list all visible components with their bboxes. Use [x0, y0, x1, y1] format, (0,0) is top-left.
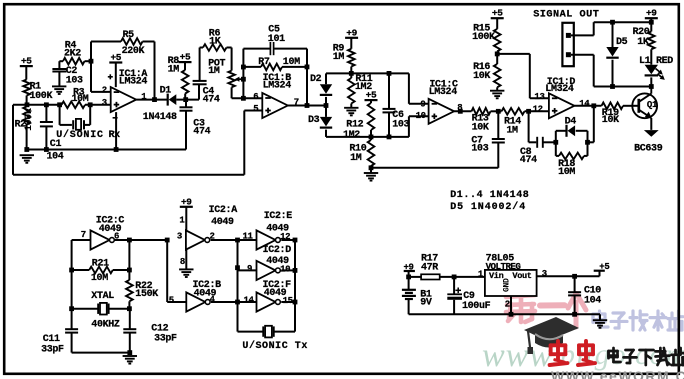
transistor Q1 BC639	[632, 93, 657, 118]
wire divider to IC1:D pin 13	[497, 53, 530, 55]
svg-text:SIGNAL OUT: SIGNAL OUT	[533, 10, 599, 21]
wire connector pin2 to collector rail	[571, 54, 594, 56]
junction IC2:F output	[293, 300, 298, 305]
junction IC2:B out / IC2:F in	[235, 300, 240, 305]
junction C10 bottom	[572, 312, 577, 317]
junction node R3 left / transducer	[57, 102, 62, 107]
svg-text:104: 104	[584, 296, 601, 307]
resistor R3	[62, 102, 86, 109]
svg-text:103: 103	[66, 75, 83, 86]
svg-text:100uF: 100uF	[462, 301, 491, 312]
LED L1 RED	[645, 65, 658, 75]
wire input row left segment	[13, 104, 62, 106]
junction C10 top	[572, 274, 577, 279]
svg-text:10M: 10M	[72, 94, 89, 105]
svg-text:LM324: LM324	[545, 84, 574, 95]
junction IC1:C output	[458, 109, 463, 114]
svg-text:LM324: LM324	[429, 87, 458, 98]
ground symbol below C2	[52, 85, 66, 87]
junction IC2:D output	[293, 268, 298, 273]
wire R17 to regulator input	[440, 276, 485, 278]
wire left vertical to return rail	[12, 105, 14, 175]
crystal XTAL 40KHZ	[72, 308, 99, 310]
inverter IC2:E	[238, 239, 257, 241]
svg-text:8: 8	[180, 257, 185, 267]
svg-text:1N4148: 1N4148	[143, 112, 177, 123]
svg-text:104: 104	[47, 151, 64, 162]
resistor R2	[23, 107, 30, 125]
junction D2/D3 midpoint	[324, 103, 329, 108]
svg-text:Q1: Q1	[647, 100, 658, 110]
wire R6 to POT	[231, 48, 233, 71]
junction +9 rail	[649, 20, 654, 25]
svg-text:U/SONIC: U/SONIC	[56, 129, 104, 141]
ultrasonic receiver transducer U/SONIC Rx	[59, 105, 61, 125]
junction node R3 right / transducer	[88, 102, 93, 107]
svg-text:150K: 150K	[135, 289, 158, 300]
svg-text:12: 12	[280, 232, 290, 242]
junction C9 top	[452, 275, 457, 280]
svg-text:103: 103	[471, 144, 488, 155]
diode D5	[612, 22, 614, 47]
inverter IC2:C	[91, 230, 110, 249]
resistor R22	[128, 240, 130, 280]
wire pin2 branch vertical	[90, 42, 92, 92]
inverter IC2:A	[186, 230, 205, 249]
junction R21 left	[69, 268, 74, 273]
wire IC2:A in to IC2:B in	[166, 240, 168, 302]
capacitor C8	[536, 137, 538, 148]
svg-text:L1 RED: L1 RED	[639, 56, 673, 67]
wire wiper vertical branch	[242, 49, 244, 99]
junction R13/R14/C7	[496, 109, 501, 114]
diode D4	[556, 130, 567, 132]
inverter IC2:D	[238, 269, 257, 271]
resistor R10	[368, 140, 375, 166]
wire IC2:B output	[211, 301, 238, 303]
junction wiper column on pin6 row	[241, 96, 246, 101]
svg-text:1M2: 1M2	[343, 130, 360, 141]
watermark lavender text dianzi-jishu-zhan	[593, 312, 605, 315]
svg-text:10K: 10K	[472, 122, 489, 133]
svg-text:6: 6	[253, 92, 258, 102]
resistor R13	[472, 108, 491, 115]
wire IC2:A output	[211, 239, 238, 241]
diode D2	[325, 73, 327, 84]
connector SIGNAL OUT	[562, 23, 573, 66]
svg-text:10: 10	[416, 111, 426, 121]
svg-text:IC2:E: IC2:E	[264, 211, 293, 222]
svg-text:WWW.eeWORM.COM: WWW.eeWORM.COM	[551, 368, 684, 379]
junction output column R22	[127, 238, 132, 243]
op-amp IC1:B	[262, 93, 288, 118]
svg-text:7: 7	[81, 230, 86, 240]
svg-text:5: 5	[169, 295, 174, 305]
junction XTAL left	[69, 306, 74, 311]
junction R7 left	[241, 65, 246, 70]
wire IC1:C output	[454, 110, 471, 112]
ultrasonic transmitter transducer U/SONIC Tx	[238, 331, 264, 333]
junction R21 right	[127, 268, 132, 273]
svg-text:33pF: 33pF	[41, 345, 64, 356]
wire R5 to output node	[154, 42, 156, 100]
op-amp IC1:A	[111, 87, 137, 112]
svg-text:BC639: BC639	[634, 144, 663, 155]
junction C1 bottom	[44, 147, 49, 152]
watermark pink character GE	[568, 294, 576, 309]
resistor R12	[370, 100, 372, 103]
svg-text:D2: D2	[310, 74, 322, 85]
svg-text:C11: C11	[43, 334, 60, 345]
resistor R20	[648, 32, 655, 50]
junction C12 bottom	[127, 350, 132, 355]
resistor R16	[494, 64, 501, 87]
wire input row right segment to pin 3	[85, 104, 111, 106]
resistor R19	[602, 103, 624, 110]
wire regulator GND pin	[510, 296, 512, 314]
svg-text:3: 3	[177, 231, 182, 241]
svg-text:2K2: 2K2	[64, 49, 81, 60]
ground symbol below R10	[370, 168, 372, 173]
wire IC2:C output to IC2:A input	[114, 239, 167, 241]
svg-text:R5: R5	[123, 30, 135, 41]
wire ground rail of input stage	[27, 149, 186, 151]
junction D5 top	[610, 20, 615, 25]
capacitor C2	[58, 61, 60, 68]
svg-text:103: 103	[392, 119, 409, 130]
svg-text:12: 12	[533, 104, 543, 114]
svg-text:2: 2	[505, 300, 510, 310]
diode D1 1N4148	[167, 94, 169, 106]
svg-text:9: 9	[247, 264, 252, 274]
capacitor C6	[388, 73, 390, 108]
capacitor C10	[574, 276, 576, 292]
junction R7 right	[305, 65, 310, 70]
junction R2 bottom at ground rail	[24, 147, 29, 152]
junction R10 bottom at return rail	[369, 165, 374, 170]
wire +9 top rail	[594, 21, 652, 23]
wire ground return rail to C7	[371, 167, 498, 169]
resistor R5 feedback	[91, 41, 121, 43]
wire C8 to D4/R18 loop	[543, 141, 555, 143]
wire IC2:C input	[72, 239, 91, 241]
svg-text:1M: 1M	[208, 66, 220, 77]
svg-text:IC2:A: IC2:A	[209, 205, 238, 216]
junction GND at bottom rail	[509, 312, 514, 317]
op-amp IC1:D	[549, 93, 575, 118]
voltage regulator 78L05 VOLTREG	[485, 270, 537, 296]
svg-text:47R: 47R	[421, 262, 438, 273]
svg-text:R7: R7	[258, 57, 270, 68]
junction R12/R10	[369, 135, 374, 140]
junction V- at ground rail	[114, 147, 119, 152]
svg-text:3: 3	[102, 98, 107, 108]
resistor R15	[496, 18, 498, 29]
watermark pink character DI (first)	[508, 286, 515, 290]
wire pin12 to C8	[528, 111, 530, 142]
svg-text:474: 474	[520, 155, 537, 166]
svg-text:1K: 1K	[637, 37, 649, 48]
junction R4 right / R5 / pin2	[89, 59, 94, 64]
junction output/C5-R7 node	[305, 103, 310, 108]
junction R9/R11 top	[349, 71, 354, 76]
wire drive rail right	[294, 240, 296, 332]
resistor R18	[556, 155, 559, 157]
svg-text:220K: 220K	[122, 46, 145, 57]
wire C5 right to IC1:B output	[306, 49, 308, 106]
resistor R17 (box symbol)	[421, 274, 440, 279]
resistor R8	[184, 62, 186, 70]
inverter IC2:F	[238, 301, 257, 303]
capacitor C5	[243, 48, 270, 50]
svg-text:11: 11	[243, 231, 254, 241]
junction R14/C8 node pin 12	[526, 109, 531, 114]
svg-text:10: 10	[280, 264, 290, 274]
capacitor C7	[497, 111, 499, 138]
resistor R14	[502, 108, 525, 115]
svg-text:D5 1N4002/4: D5 1N4002/4	[450, 201, 526, 213]
capacitor C3	[185, 100, 187, 107]
svg-text:+5: +5	[180, 52, 191, 63]
junction C6 bottom	[387, 135, 392, 140]
wire pin 2 inverting input	[91, 91, 111, 93]
svg-text:1M: 1M	[506, 125, 518, 136]
svg-text:IC2:D: IC2:D	[263, 245, 292, 256]
potentiometer POT 1M	[228, 71, 235, 88]
wire collector rail	[594, 86, 652, 88]
svg-text:4049: 4049	[211, 217, 234, 228]
watermark black text dianzi-xiazai-zhan	[609, 350, 618, 353]
wire connector pin1 to +9 rail	[571, 34, 594, 36]
wire R19 to Q1 base	[623, 105, 639, 107]
junction C6 top	[387, 71, 392, 76]
capacitor C4	[198, 85, 200, 100]
svg-text:474: 474	[193, 127, 210, 138]
junction output/feedback node	[591, 103, 596, 108]
svg-text:LM324: LM324	[263, 81, 292, 92]
ground symbol below R16	[490, 90, 504, 92]
capacitor C12	[129, 309, 131, 329]
wire IC1:A V- to ground rail	[115, 112, 117, 149]
resistor R4	[59, 60, 63, 62]
svg-text:+5: +5	[110, 52, 121, 63]
diode D3	[325, 106, 327, 117]
svg-text:3: 3	[542, 269, 547, 279]
svg-text:10M: 10M	[283, 57, 300, 68]
junction D5 bottom	[610, 84, 615, 89]
wire drive rail left	[237, 240, 239, 332]
junction IC2:E output	[293, 238, 298, 243]
svg-text:+9: +9	[181, 196, 192, 207]
polarity marks beside IC1:A supply stubs	[113, 117, 118, 119]
wire power bottom rail	[409, 313, 600, 315]
svg-text:D1: D1	[160, 85, 172, 96]
op-amp IC1:C	[429, 99, 455, 124]
wire Q1 emitter to ground	[650, 118, 652, 130]
wire IC2:A V- to ground	[185, 250, 187, 269]
ground symbol oscillator	[123, 355, 137, 357]
wire +9 to R20	[650, 18, 652, 31]
junction R1/R2 on input row	[25, 102, 30, 107]
svg-text:Rx: Rx	[109, 130, 121, 141]
wire IC1:A output	[136, 99, 168, 101]
svg-text:100K: 100K	[24, 108, 35, 131]
junction loop right	[585, 140, 590, 145]
wire bias row to IC1:C pin 9	[408, 73, 410, 103]
svg-text:101: 101	[268, 34, 285, 45]
wire bottom row to IC1:C pin 10	[408, 116, 410, 137]
wire loop left vertical	[555, 131, 557, 156]
junction battery positive	[406, 275, 411, 280]
svg-text:100K: 100K	[30, 91, 53, 102]
svg-text:10M: 10M	[558, 167, 575, 178]
svg-text:9: 9	[420, 99, 425, 109]
capacitor C1	[45, 105, 47, 122]
ground symbol power supply	[599, 314, 601, 320]
junction LED bottom / collector	[649, 84, 654, 89]
junction R15/R16 divider	[495, 52, 500, 57]
svg-text:15: 15	[283, 296, 293, 306]
svg-text:5: 5	[253, 104, 258, 114]
watermark graduation cap logo	[524, 317, 579, 341]
capacitor C9 electrolytic	[453, 277, 455, 294]
svg-text:R21: R21	[92, 259, 109, 270]
svg-text:1M: 1M	[333, 52, 345, 63]
POT wiper arrow	[238, 78, 244, 80]
junction detector node	[183, 97, 188, 102]
svg-text:D4: D4	[565, 117, 577, 128]
wire +5 to op-amp V+	[115, 63, 117, 88]
svg-text:2: 2	[102, 85, 107, 95]
svg-text:+5: +5	[492, 8, 503, 19]
wire oscillator input column	[71, 240, 73, 309]
wire bias bottom row	[326, 136, 409, 138]
ground symbol below R2	[20, 154, 34, 156]
junction wiper	[241, 77, 246, 82]
resistor R7 feedback	[243, 66, 261, 68]
inverter IC2:B	[186, 292, 205, 311]
wire oscillator ground rail	[72, 352, 130, 354]
svg-text:+5: +5	[21, 56, 32, 67]
junction loop left	[553, 140, 558, 145]
wire POT bottom row to IC1:B pin 6	[232, 97, 263, 99]
svg-text:474: 474	[203, 95, 220, 106]
ground symbol below IC2:A	[179, 268, 193, 270]
resistor R21	[89, 267, 113, 274]
capacitor C11	[71, 309, 73, 329]
svg-text:14: 14	[579, 99, 590, 109]
junction output/R5 node	[152, 97, 157, 102]
svg-text:Vout: Vout	[512, 271, 531, 281]
ground symbol Q1 emitter	[644, 130, 659, 137]
resistor R11	[348, 78, 355, 104]
resistor R9	[350, 38, 352, 49]
resistor R1	[23, 80, 30, 96]
wire +5 to R1	[25, 66, 27, 79]
wire loop to output node	[588, 141, 594, 143]
wire long return rail to IC1:B pin 5	[13, 174, 244, 176]
svg-text:9V: 9V	[420, 298, 432, 309]
svg-text:+9: +9	[646, 8, 657, 19]
svg-text:LM324: LM324	[119, 77, 148, 88]
svg-text:1M: 1M	[168, 64, 180, 75]
watermark pink character YI (one)	[540, 302, 565, 308]
svg-text:+5: +5	[366, 90, 377, 101]
wire bias top row	[326, 72, 409, 74]
svg-text:GND: GND	[503, 278, 512, 292]
svg-text:33pF: 33pF	[154, 333, 177, 344]
svg-text:100K: 100K	[472, 32, 495, 43]
svg-text:10M: 10M	[91, 273, 108, 284]
resistor R6	[200, 47, 203, 49]
wire +9 to IC2:A V+	[185, 207, 187, 231]
ground symbol below R11	[344, 107, 358, 109]
wire D1 to detector node	[176, 99, 199, 101]
svg-text:Vin: Vin	[489, 271, 504, 281]
svg-text:10K: 10K	[473, 71, 490, 82]
svg-text:+9: +9	[346, 27, 357, 38]
svg-text:1K: 1K	[209, 37, 221, 48]
junction IC2:A input column	[165, 238, 170, 243]
svg-text:D1..4 1N4148: D1..4 1N4148	[450, 190, 529, 201]
junction drive rail top	[235, 238, 240, 243]
svg-text:XTAL: XTAL	[91, 291, 114, 302]
svg-text:13: 13	[534, 92, 544, 102]
svg-text:14: 14	[244, 295, 255, 305]
wire regulator output rail	[537, 275, 600, 277]
svg-text:D5: D5	[616, 37, 628, 48]
svg-text:1M: 1M	[350, 153, 362, 164]
battery B1 9V	[408, 277, 410, 290]
svg-text:D3: D3	[308, 115, 320, 126]
wire +9 rail to R17	[409, 276, 422, 278]
svg-text:U/SONIC Tx: U/SONIC Tx	[242, 340, 308, 352]
wire IC1:B output	[288, 105, 326, 107]
junction C1 top	[44, 102, 49, 107]
junction XTAL right	[127, 306, 132, 311]
svg-text:40KHZ: 40KHZ	[91, 320, 120, 331]
wire loop right vertical	[587, 131, 589, 156]
wire IC1:D output	[574, 105, 601, 107]
svg-text:10K: 10K	[602, 115, 619, 126]
watermark red characters chong-chong	[556, 341, 560, 359]
junction IC2:D input	[235, 265, 240, 270]
